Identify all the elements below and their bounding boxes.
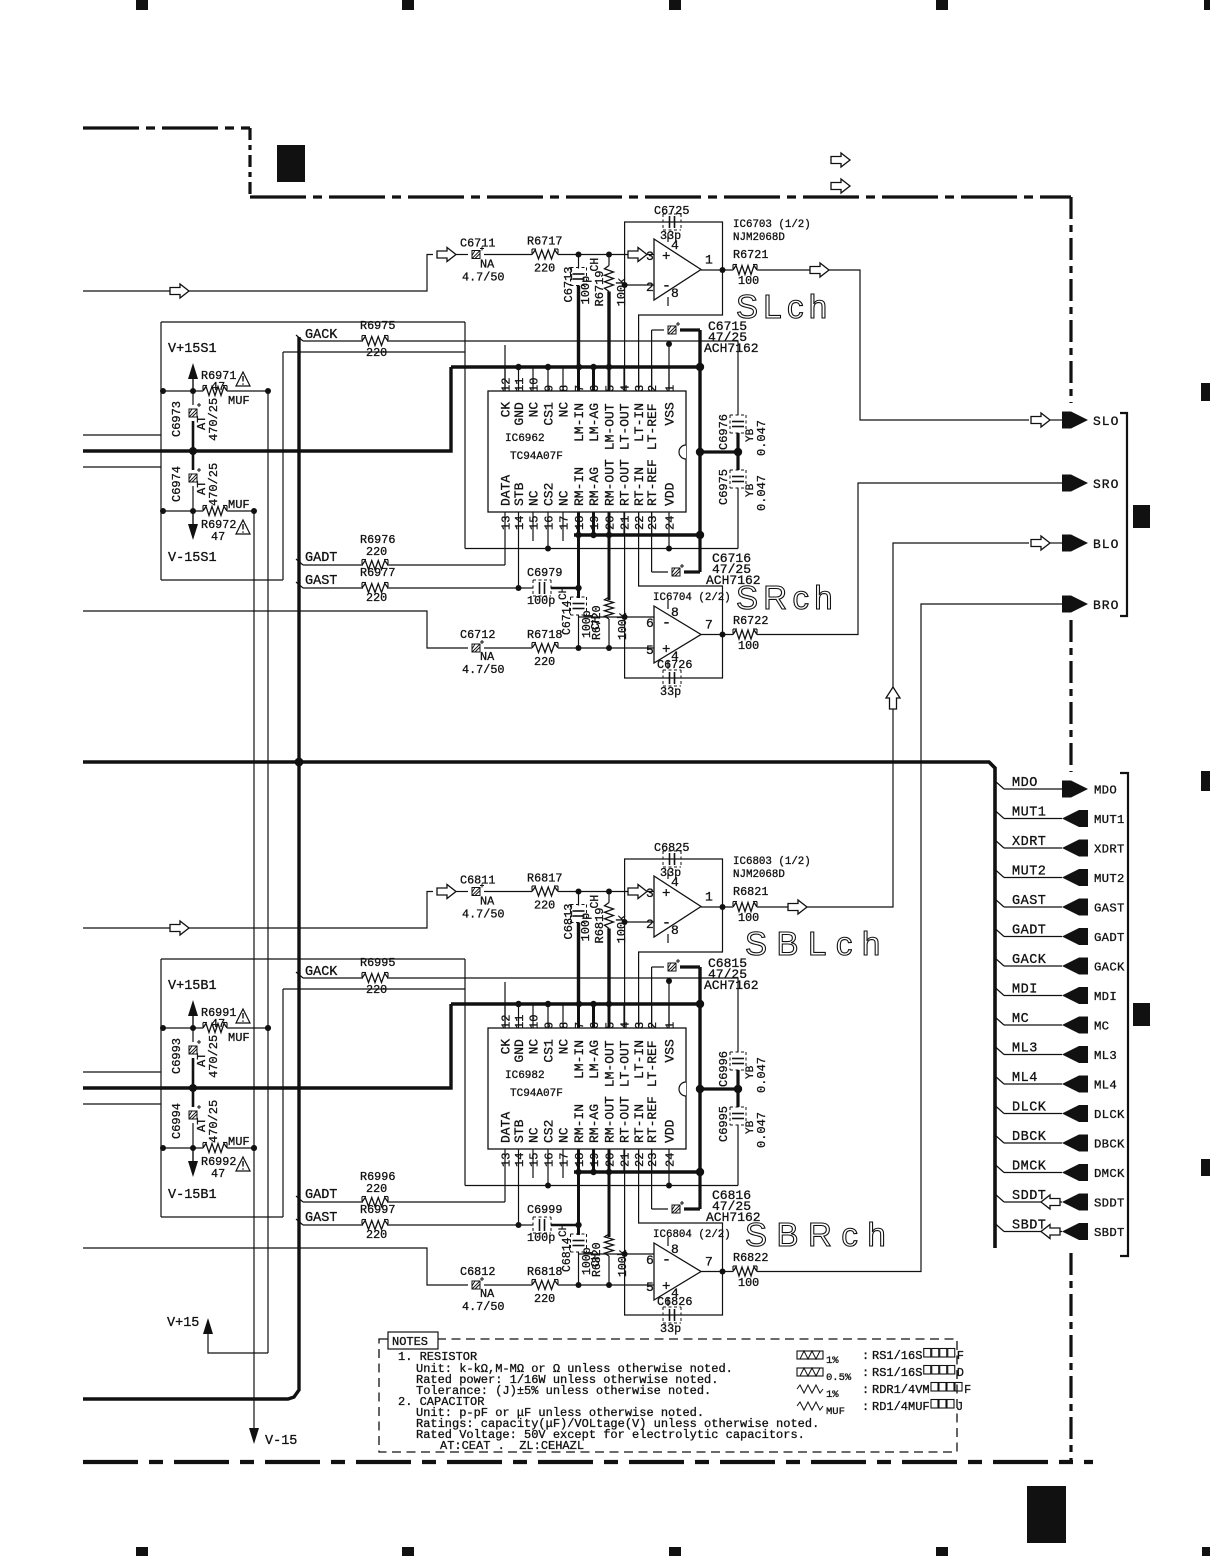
svg-text:SRO: SRO — [1093, 477, 1119, 492]
svg-text:CS1: CS1 — [542, 402, 557, 426]
svg-text:16: 16 — [543, 516, 557, 530]
svg-text:21: 21 — [619, 516, 633, 530]
svg-text:220: 220 — [534, 1292, 555, 1306]
svg-text:100: 100 — [738, 911, 759, 925]
svg-text:47: 47 — [211, 1167, 225, 1181]
svg-text:VDD: VDD — [663, 482, 678, 506]
svg-text:1: 1 — [664, 1022, 678, 1029]
svg-text:CH: CH — [558, 1224, 570, 1237]
svg-text:RM-AG: RM-AG — [587, 467, 602, 506]
svg-text:9: 9 — [543, 385, 557, 392]
svg-text:CH: CH — [558, 587, 570, 600]
svg-text:100p: 100p — [527, 594, 555, 608]
svg-text:23: 23 — [646, 1153, 660, 1167]
svg-text:C6712: C6712 — [460, 628, 495, 642]
svg-text:CS2: CS2 — [542, 483, 557, 506]
svg-text:0.047: 0.047 — [755, 420, 769, 456]
svg-text:3: 3 — [646, 249, 654, 264]
svg-text:C6973: C6973 — [170, 401, 184, 437]
svg-text:LT-OUT: LT-OUT — [618, 1040, 633, 1087]
svg-text:15: 15 — [528, 516, 542, 530]
svg-text:100k: 100k — [615, 278, 629, 307]
svg-text:VSS: VSS — [663, 402, 678, 426]
svg-text:220: 220 — [366, 545, 387, 559]
svg-text:RT-OUT: RT-OUT — [618, 459, 633, 506]
svg-text:SBLch: SBLch — [745, 925, 890, 962]
svg-text:RD1/4MUF: RD1/4MUF — [872, 1400, 930, 1414]
svg-text::: : — [862, 1349, 869, 1363]
svg-text:GACK: GACK — [1012, 953, 1047, 968]
svg-text:LM-AG: LM-AG — [587, 403, 602, 442]
svg-text:4: 4 — [619, 385, 633, 392]
svg-text:2: 2 — [646, 280, 654, 295]
svg-text:GADT: GADT — [305, 551, 337, 566]
svg-text:-: - — [662, 1252, 671, 1269]
svg-text:9: 9 — [543, 1022, 557, 1029]
svg-text:7: 7 — [705, 1255, 713, 1270]
svg-text:DMCK: DMCK — [1094, 1167, 1125, 1181]
svg-text:NC: NC — [527, 1039, 542, 1055]
svg-text:10: 10 — [528, 378, 542, 392]
svg-text:IC6704 (2/2): IC6704 (2/2) — [653, 592, 731, 604]
svg-text:GND: GND — [512, 402, 527, 426]
svg-text:MUF: MUF — [228, 1135, 250, 1149]
svg-text:IC6804 (2/2): IC6804 (2/2) — [653, 1229, 731, 1241]
svg-text:MUF: MUF — [228, 394, 250, 408]
svg-text:100: 100 — [738, 1276, 759, 1290]
svg-text:DMCK: DMCK — [1012, 1160, 1047, 1175]
svg-text:470/25: 470/25 — [207, 1035, 221, 1078]
svg-text:13: 13 — [500, 516, 514, 530]
svg-text:C6999: C6999 — [527, 1203, 562, 1217]
svg-text:6: 6 — [646, 616, 654, 631]
svg-text:ML4: ML4 — [1094, 1079, 1117, 1093]
svg-text:0.5%: 0.5% — [826, 1372, 852, 1384]
svg-text:R6720: R6720 — [591, 605, 604, 640]
svg-text:0.047: 0.047 — [755, 1057, 769, 1093]
svg-text:R6721: R6721 — [733, 248, 768, 262]
svg-text:R6820: R6820 — [591, 1242, 604, 1277]
svg-text:XDRT: XDRT — [1094, 843, 1125, 857]
svg-text:8: 8 — [558, 385, 572, 392]
svg-text:NJM2068D: NJM2068D — [733, 869, 785, 881]
svg-text:ML3: ML3 — [1012, 1042, 1038, 1057]
svg-text:5: 5 — [646, 643, 654, 658]
svg-text:12: 12 — [500, 1015, 514, 1029]
svg-text:XDRT: XDRT — [1012, 835, 1046, 850]
svg-text:+: + — [662, 886, 670, 902]
svg-text:470/25: 470/25 — [207, 1100, 221, 1143]
svg-text:MDI: MDI — [1094, 990, 1117, 1004]
svg-text:C6726: C6726 — [657, 658, 692, 672]
svg-text:MDI: MDI — [1012, 983, 1038, 998]
svg-text:NJM2068D: NJM2068D — [733, 232, 785, 244]
svg-text:17: 17 — [558, 1153, 572, 1167]
svg-text:C6996: C6996 — [717, 1051, 731, 1087]
svg-text:3: 3 — [633, 385, 647, 392]
svg-text:DLCK: DLCK — [1094, 1108, 1125, 1122]
svg-text:MUT2: MUT2 — [1012, 865, 1046, 880]
svg-text:MUF: MUF — [228, 1031, 250, 1045]
svg-text:2: 2 — [646, 1022, 660, 1029]
svg-text:14: 14 — [513, 1153, 527, 1167]
svg-text:3: 3 — [646, 886, 654, 901]
svg-text:1: 1 — [664, 385, 678, 392]
svg-text:NA: NA — [480, 895, 495, 909]
svg-text:MUF: MUF — [228, 498, 250, 512]
svg-text:470/25: 470/25 — [207, 463, 221, 506]
svg-text:ML4: ML4 — [1012, 1071, 1038, 1086]
svg-text:TC94A07F: TC94A07F — [510, 451, 563, 463]
svg-text:BRO: BRO — [1093, 598, 1119, 613]
svg-text:24: 24 — [664, 516, 678, 530]
svg-text:-: - — [662, 278, 671, 295]
svg-text:R6821: R6821 — [733, 885, 768, 899]
svg-text::: : — [862, 1400, 869, 1414]
svg-text:15: 15 — [528, 1153, 542, 1167]
svg-text:MC: MC — [1094, 1020, 1109, 1034]
svg-text:GAST: GAST — [1094, 902, 1125, 916]
svg-text:BLO: BLO — [1093, 537, 1119, 552]
svg-text:V+15B1: V+15B1 — [168, 979, 217, 994]
svg-text:GND: GND — [512, 1039, 527, 1063]
svg-text:RT-OUT: RT-OUT — [618, 1096, 633, 1143]
svg-text:NC: NC — [557, 1127, 572, 1143]
svg-text:IC6803 (1/2): IC6803 (1/2) — [733, 856, 811, 868]
svg-text:21: 21 — [619, 1153, 633, 1167]
svg-text:0.047: 0.047 — [755, 475, 769, 511]
svg-text:DBCK: DBCK — [1012, 1130, 1047, 1145]
svg-text:VDD: VDD — [663, 1119, 678, 1143]
svg-text:470/25: 470/25 — [207, 398, 221, 441]
svg-text:3: 3 — [633, 1022, 647, 1029]
svg-text:8: 8 — [671, 1242, 679, 1257]
svg-text:220: 220 — [366, 983, 387, 997]
svg-text:LM-OUT: LM-OUT — [603, 403, 618, 450]
svg-text:100p: 100p — [527, 1231, 555, 1245]
svg-text:C6725: C6725 — [654, 204, 689, 218]
svg-text:NC: NC — [527, 1127, 542, 1143]
svg-text:LM-OUT: LM-OUT — [603, 1040, 618, 1087]
svg-text:V+15: V+15 — [167, 1316, 199, 1331]
svg-text:LT-REF: LT-REF — [645, 403, 660, 450]
svg-text:AT:CEAT . ZL:CEHAZL: AT:CEAT . ZL:CEHAZL — [440, 1439, 584, 1453]
svg-text:C6974: C6974 — [170, 466, 184, 502]
svg-text:GAST: GAST — [305, 574, 337, 589]
svg-text:C6711: C6711 — [460, 237, 495, 251]
svg-text:4: 4 — [619, 1022, 633, 1029]
svg-text:MC: MC — [1012, 1012, 1029, 1027]
svg-text:220: 220 — [366, 591, 387, 605]
svg-text:CS2: CS2 — [542, 1120, 557, 1143]
svg-text:R6822: R6822 — [733, 1251, 768, 1265]
svg-text:SLch: SLch — [736, 288, 832, 325]
svg-text:ML3: ML3 — [1094, 1049, 1117, 1063]
svg-text:24: 24 — [664, 1153, 678, 1167]
svg-text:IC6703 (1/2): IC6703 (1/2) — [733, 219, 811, 231]
svg-text:LM-IN: LM-IN — [572, 1040, 587, 1079]
svg-text:0.047: 0.047 — [755, 1112, 769, 1148]
svg-text:GADT: GADT — [1094, 931, 1125, 945]
svg-text:22: 22 — [633, 516, 647, 530]
svg-text:8: 8 — [671, 923, 679, 938]
svg-text:RT-REF: RT-REF — [645, 459, 660, 506]
svg-text:V+15S1: V+15S1 — [168, 342, 217, 357]
svg-text:IC6962: IC6962 — [505, 433, 545, 445]
svg-text:+: + — [662, 642, 670, 658]
svg-text:GADT: GADT — [305, 1188, 337, 1203]
svg-text:8: 8 — [671, 286, 679, 301]
svg-text:NC: NC — [557, 1039, 572, 1055]
svg-text:NA: NA — [480, 258, 495, 272]
svg-text:220: 220 — [366, 346, 387, 360]
svg-text:LT-REF: LT-REF — [645, 1040, 660, 1087]
svg-text:RDR1/4VM: RDR1/4VM — [872, 1383, 930, 1397]
svg-text:GADT: GADT — [1012, 924, 1046, 939]
svg-text:TC94A07F: TC94A07F — [510, 1088, 563, 1100]
svg-text:LT-OUT: LT-OUT — [618, 403, 633, 450]
svg-text:100k: 100k — [615, 915, 629, 944]
svg-text:R6977: R6977 — [360, 566, 395, 580]
svg-text:C6975: C6975 — [717, 469, 731, 505]
svg-text:11: 11 — [513, 378, 527, 392]
svg-text:STB: STB — [512, 1119, 527, 1143]
svg-text:14: 14 — [513, 516, 527, 530]
svg-text:8: 8 — [671, 605, 679, 620]
svg-text:4.7/50: 4.7/50 — [462, 271, 504, 285]
svg-text:100p: 100p — [579, 913, 593, 942]
svg-text:C6994: C6994 — [170, 1103, 184, 1139]
svg-text:SRch: SRch — [736, 579, 838, 616]
svg-text:VSS: VSS — [663, 1039, 678, 1063]
svg-text:2: 2 — [646, 385, 660, 392]
svg-text:C6993: C6993 — [170, 1038, 184, 1074]
svg-text:NC: NC — [527, 490, 542, 506]
svg-text:5: 5 — [646, 1280, 654, 1295]
svg-text:+: + — [662, 249, 670, 265]
svg-text:F: F — [957, 1349, 964, 1363]
svg-text:SDDT: SDDT — [1094, 1197, 1125, 1211]
svg-text:NA: NA — [480, 1287, 495, 1301]
svg-text:16: 16 — [543, 1153, 557, 1167]
svg-text:33p: 33p — [660, 685, 681, 699]
svg-text:7: 7 — [705, 618, 713, 633]
svg-text:F: F — [964, 1383, 971, 1397]
svg-text:CH: CH — [589, 258, 602, 272]
svg-text:LM-IN: LM-IN — [572, 403, 587, 442]
svg-text::: : — [862, 1366, 869, 1380]
svg-text:ACH7162: ACH7162 — [704, 341, 759, 356]
svg-text:RM-OUT: RM-OUT — [603, 1096, 618, 1143]
svg-text:33p: 33p — [660, 1322, 681, 1336]
svg-text:SBDT: SBDT — [1094, 1226, 1125, 1240]
svg-text:R6718: R6718 — [527, 628, 562, 642]
svg-text:GAST: GAST — [305, 1211, 337, 1226]
svg-text:IC6982: IC6982 — [505, 1070, 545, 1082]
svg-text:SLO: SLO — [1093, 414, 1119, 429]
svg-text:NC: NC — [557, 402, 572, 418]
svg-text:C6714: C6714 — [561, 600, 574, 635]
svg-text:1%: 1% — [826, 1355, 839, 1367]
svg-text:8: 8 — [558, 1022, 572, 1029]
svg-text::: : — [862, 1383, 869, 1397]
svg-text:47: 47 — [211, 380, 225, 394]
svg-text:C6814: C6814 — [561, 1237, 574, 1272]
svg-text:NA: NA — [480, 650, 495, 664]
svg-text:C6995: C6995 — [717, 1106, 731, 1142]
svg-text:C6976: C6976 — [717, 414, 731, 450]
svg-text:C6979: C6979 — [527, 566, 562, 580]
svg-text:NOTES: NOTES — [392, 1335, 428, 1349]
svg-text:4.7/50: 4.7/50 — [462, 663, 504, 677]
svg-text:4.7/50: 4.7/50 — [462, 908, 504, 922]
svg-text:12: 12 — [500, 378, 514, 392]
svg-text:RM-IN: RM-IN — [572, 1104, 587, 1143]
svg-text:100p: 100p — [579, 276, 593, 305]
svg-text:C6811: C6811 — [460, 874, 495, 888]
svg-text:GACK: GACK — [1094, 961, 1125, 975]
svg-text:R6818: R6818 — [527, 1265, 562, 1279]
svg-text:+: + — [662, 1279, 670, 1295]
svg-text:V-15S1: V-15S1 — [168, 551, 217, 566]
svg-text:C6813: C6813 — [562, 903, 576, 939]
svg-text:1%: 1% — [826, 1389, 839, 1401]
svg-text:33p: 33p — [660, 229, 681, 243]
svg-text:R6719: R6719 — [593, 270, 607, 306]
svg-text:C6713: C6713 — [562, 266, 576, 302]
svg-text:CH: CH — [589, 895, 602, 909]
svg-text:6: 6 — [646, 1253, 654, 1268]
svg-text:R6722: R6722 — [733, 614, 768, 628]
svg-text:220: 220 — [534, 655, 555, 669]
svg-text:22: 22 — [633, 1153, 647, 1167]
svg-text:220: 220 — [366, 1182, 387, 1196]
svg-text:100: 100 — [738, 274, 759, 288]
svg-text:SBRch: SBRch — [745, 1216, 895, 1253]
svg-text:2: 2 — [646, 917, 654, 932]
svg-text:CS1: CS1 — [542, 1039, 557, 1063]
svg-text:1: 1 — [705, 253, 713, 268]
svg-text:MUT1: MUT1 — [1012, 806, 1046, 821]
svg-text:220: 220 — [534, 899, 555, 913]
svg-text:GAST: GAST — [1012, 894, 1046, 909]
svg-text:10: 10 — [528, 1015, 542, 1029]
svg-text:MUT1: MUT1 — [1094, 813, 1125, 827]
svg-text:C6826: C6826 — [657, 1295, 692, 1309]
svg-text:R6995: R6995 — [360, 956, 395, 970]
svg-text:13: 13 — [500, 1153, 514, 1167]
svg-text:V-15: V-15 — [265, 1434, 297, 1449]
svg-text:D: D — [957, 1366, 964, 1380]
svg-text:1: 1 — [705, 890, 713, 905]
svg-text:NC: NC — [557, 490, 572, 506]
svg-text:R6819: R6819 — [593, 907, 607, 943]
svg-text:R6717: R6717 — [527, 235, 562, 249]
svg-text:23: 23 — [646, 516, 660, 530]
svg-text:11: 11 — [513, 1015, 527, 1029]
svg-text:DBCK: DBCK — [1094, 1138, 1125, 1152]
svg-text:MDO: MDO — [1094, 784, 1117, 798]
svg-text:J: J — [956, 1400, 963, 1414]
svg-text:MUF: MUF — [826, 1406, 845, 1418]
svg-text:33p: 33p — [660, 866, 681, 880]
svg-text:RS1/16S: RS1/16S — [872, 1349, 922, 1363]
svg-text:RM-AG: RM-AG — [587, 1104, 602, 1143]
svg-text:17: 17 — [558, 516, 572, 530]
svg-text:47: 47 — [211, 1017, 225, 1031]
svg-text:100: 100 — [738, 639, 759, 653]
svg-text:NC: NC — [527, 402, 542, 418]
svg-text:RS1/16S: RS1/16S — [872, 1366, 922, 1380]
svg-text:R6817: R6817 — [527, 872, 562, 886]
svg-text:220: 220 — [534, 262, 555, 276]
svg-text:4.7/50: 4.7/50 — [462, 1300, 504, 1314]
svg-text:C6812: C6812 — [460, 1265, 495, 1279]
svg-text:ACH7162: ACH7162 — [704, 978, 759, 993]
svg-text:STB: STB — [512, 482, 527, 506]
svg-text:R6997: R6997 — [360, 1203, 395, 1217]
svg-text:-: - — [662, 615, 671, 632]
svg-text:RM-OUT: RM-OUT — [603, 459, 618, 506]
svg-text:LM-AG: LM-AG — [587, 1040, 602, 1079]
svg-text:R6975: R6975 — [360, 319, 395, 333]
svg-text:RM-IN: RM-IN — [572, 467, 587, 506]
svg-text:DLCK: DLCK — [1012, 1101, 1047, 1116]
svg-text:-: - — [662, 915, 671, 932]
svg-text:MDO: MDO — [1012, 776, 1038, 791]
svg-text:MUT2: MUT2 — [1094, 872, 1125, 886]
svg-text:C6825: C6825 — [654, 841, 689, 855]
svg-text:47: 47 — [211, 530, 225, 544]
svg-text:RT-REF: RT-REF — [645, 1096, 660, 1143]
svg-text:V-15B1: V-15B1 — [168, 1188, 217, 1203]
svg-text:220: 220 — [366, 1228, 387, 1242]
